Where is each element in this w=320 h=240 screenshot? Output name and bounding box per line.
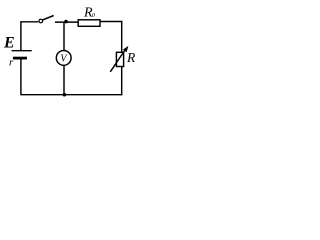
- wire voltmeter branch lower: [63, 65, 65, 94]
- wire voltmeter branch upper: [63, 22, 65, 51]
- wire R0 to top-right corner: [100, 21, 122, 23]
- voltmeter V (circle): [56, 51, 71, 66]
- node B (junction dot on bottom wire): [63, 93, 67, 97]
- node A (junction dot, voltmeter tap on top wire): [64, 20, 68, 24]
- wire left lower segment: [20, 60, 22, 96]
- wire bottom segment: [21, 94, 122, 96]
- wire left upper segment: [20, 21, 22, 51]
- resistor R0 (box): [78, 20, 100, 27]
- svg-text:0: 0: [92, 12, 96, 19]
- rheostat R (box): [116, 52, 123, 66]
- wire top-left segment: [21, 21, 38, 23]
- svg-text:R: R: [126, 50, 136, 65]
- svg-text:E: E: [3, 35, 15, 52]
- battery E positive plate (long thin): [12, 50, 32, 52]
- svg-text:V: V: [60, 53, 68, 64]
- battery E negative plate (short thick): [13, 57, 27, 60]
- rheostat arrow: [110, 46, 128, 72]
- svg-text:r: r: [9, 57, 14, 69]
- wire right upper segment: [121, 21, 123, 53]
- wire switch to node A: [55, 21, 78, 23]
- wire right lower segment: [121, 67, 123, 96]
- switch S (open knife switch with pivot circle): [39, 16, 54, 23]
